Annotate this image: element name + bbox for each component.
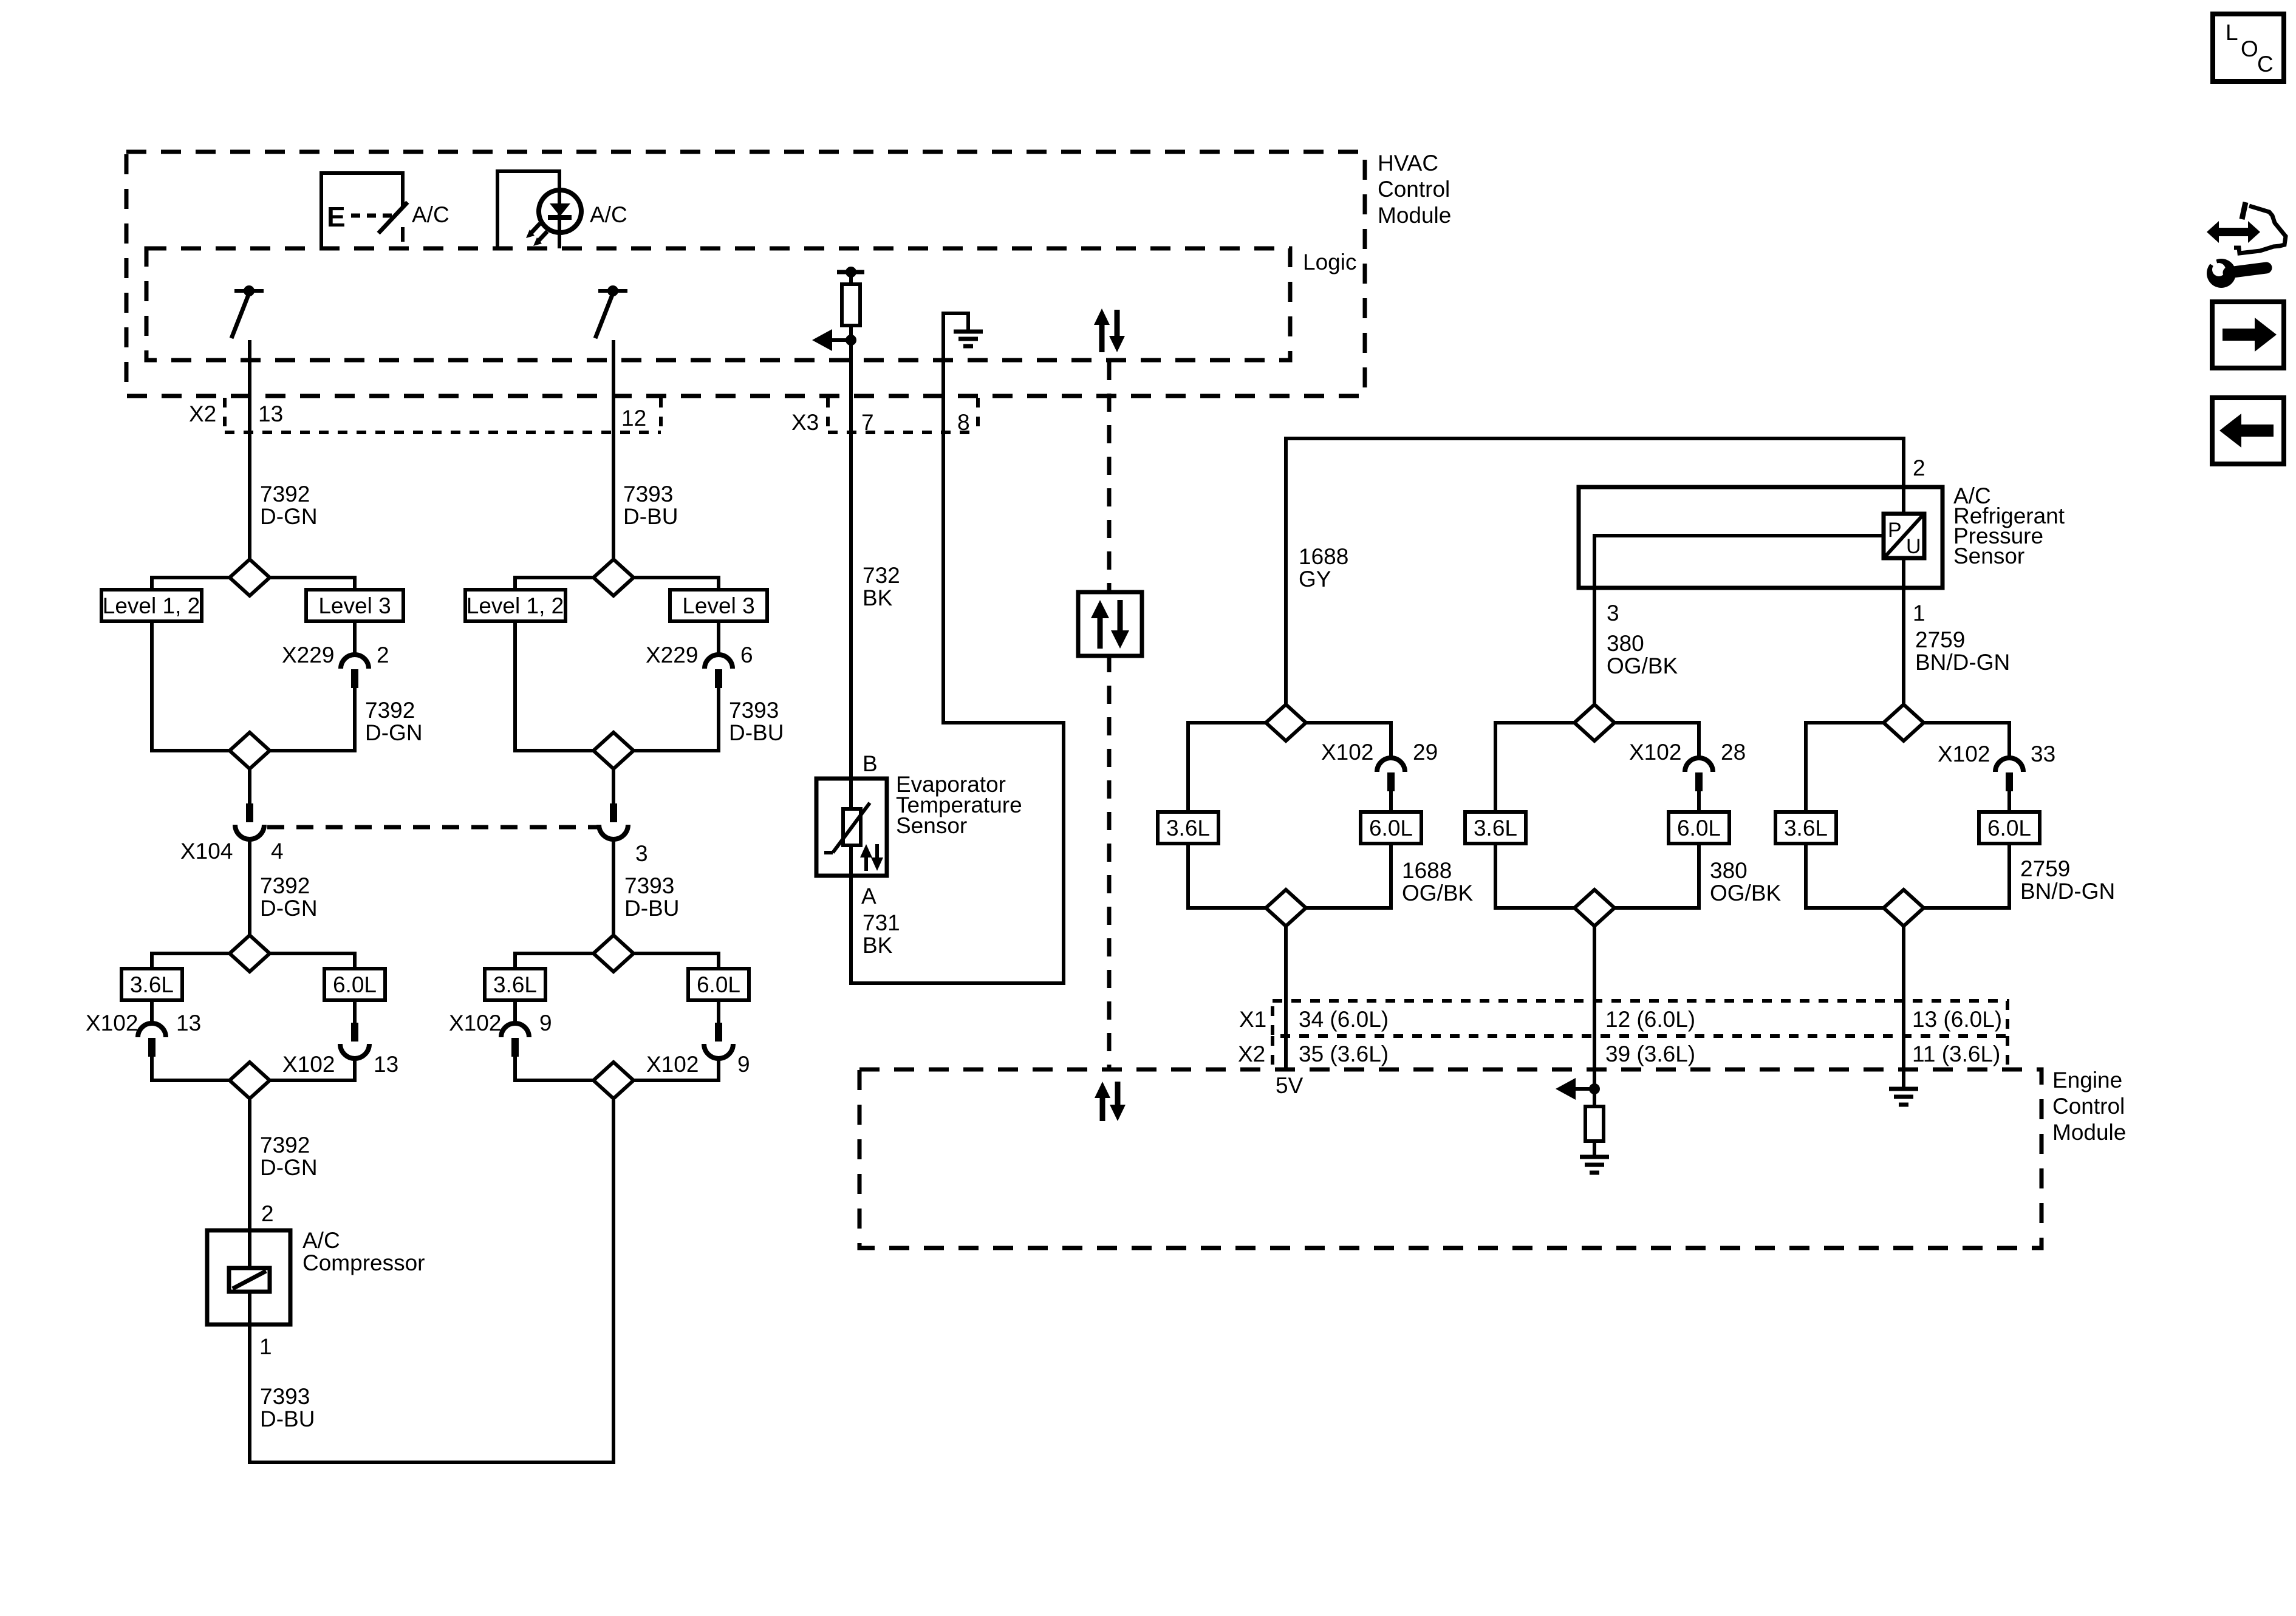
X3 connector row xyxy=(828,398,978,432)
svg-text:34 (6.0L): 34 (6.0L) xyxy=(1299,1007,1389,1032)
svg-text:Control: Control xyxy=(1378,177,1450,202)
svg-text:7392: 7392 xyxy=(260,873,310,898)
wire 3.6L to splice (5V branch) xyxy=(1188,844,1267,908)
3.6L box (signal branch) xyxy=(1465,812,1526,844)
svg-text:X102: X102 xyxy=(449,1011,501,1035)
svg-text:2: 2 xyxy=(377,643,389,667)
Level 3 box (right) xyxy=(670,590,767,621)
3.6L box (left branch) xyxy=(121,969,182,1000)
svg-text:BN/D-GN: BN/D-GN xyxy=(2020,879,2115,904)
resistor R2 (ECM pull-down) xyxy=(1585,1106,1604,1141)
svg-text:D-BU: D-BU xyxy=(260,1406,315,1431)
Logic box xyxy=(146,248,1290,360)
pin 1 wire xyxy=(1902,558,1905,704)
wire 732 BK from X3-7 xyxy=(849,432,853,779)
signal arrow to logic xyxy=(812,329,851,351)
svg-text:Level 3: Level 3 xyxy=(682,593,754,618)
A/C indicator LED xyxy=(526,171,581,248)
svg-text:HVAC: HVAC xyxy=(1378,151,1438,176)
A/C switch blade xyxy=(378,202,408,233)
Engine Control Module box xyxy=(859,1069,2041,1248)
wire Level 3 to X229 (left) xyxy=(353,621,357,655)
Level 3 box (left) xyxy=(306,590,403,621)
node on signal wire xyxy=(1589,1083,1600,1094)
wire node to X3 pin 7 xyxy=(849,345,853,432)
wire 6.0L to splice (ground branch) xyxy=(1922,844,2009,908)
splice diamond S104b xyxy=(593,1062,634,1099)
svg-text:2759: 2759 xyxy=(1915,627,1965,652)
wire 6.0L to splice (left branch) xyxy=(268,1059,355,1080)
wire X104 down xyxy=(248,839,251,935)
svg-text:Level 1, 2: Level 1, 2 xyxy=(466,593,564,618)
svg-text:9: 9 xyxy=(737,1052,750,1077)
wire X104 down (right) xyxy=(612,839,615,935)
A/C switch lower contact xyxy=(401,227,405,242)
connector X102 pin 9 (3.6L side) xyxy=(501,1000,529,1057)
Level 1, 2 box (right) xyxy=(465,590,565,621)
wire 3.6L to splice (right branch) xyxy=(515,1057,595,1080)
splice diamond S101a xyxy=(230,559,270,596)
svg-text:7393: 7393 xyxy=(623,482,673,506)
svg-text:X2: X2 xyxy=(189,401,216,426)
svg-text:13: 13 xyxy=(258,401,283,426)
vehicle data-link icon (car outline with double arrow) xyxy=(2207,202,2286,253)
splice diamond S103b xyxy=(593,732,634,769)
ECM connector row X2 xyxy=(1273,1036,2007,1068)
wire 3.6L to splice (ground branch) xyxy=(1806,844,1885,908)
svg-text:X229: X229 xyxy=(282,643,334,667)
splice diamond S103a xyxy=(593,559,634,596)
svg-text:X102: X102 xyxy=(1321,740,1373,765)
svg-text:7393: 7393 xyxy=(624,873,674,898)
svg-text:X229: X229 xyxy=(646,643,698,667)
svg-text:BN/D-GN: BN/D-GN xyxy=(1915,650,2010,675)
A/C indicator bracket xyxy=(497,171,559,248)
3.6L box (5V branch) xyxy=(1158,812,1218,844)
svg-text:6: 6 xyxy=(740,643,753,667)
wire to Level 3 (right) xyxy=(632,578,719,590)
connector X102 pin 13 (3.6L side) xyxy=(138,1000,166,1057)
svg-text:Engine: Engine xyxy=(2052,1068,2122,1093)
svg-text:OG/BK: OG/BK xyxy=(1402,881,1474,905)
svg-text:1: 1 xyxy=(1913,601,1925,626)
wire Level 1,2 down (left) xyxy=(152,621,231,751)
svg-text:28: 28 xyxy=(1721,740,1746,765)
svg-text:35 (3.6L): 35 (3.6L) xyxy=(1299,1042,1389,1066)
svg-text:B: B xyxy=(863,751,878,776)
connector X102 pin 9 (6.0L side) xyxy=(704,1000,733,1059)
serial data box xyxy=(1078,592,1142,656)
3.6L box (right branch) xyxy=(485,969,545,1000)
pressure transducer P/U symbol xyxy=(1884,514,1924,558)
svg-text:BK: BK xyxy=(863,933,893,958)
wire 380 OG/BK xyxy=(1593,588,1596,704)
serial data box arrows xyxy=(1091,600,1129,649)
splice diamond S102a xyxy=(230,935,270,972)
wire 7392 D-GN from X2-13 xyxy=(248,432,251,559)
svg-text:U: U xyxy=(1906,535,1921,558)
svg-text:11 (3.6L): 11 (3.6L) xyxy=(1912,1042,2000,1066)
svg-text:6.0L: 6.0L xyxy=(1369,816,1413,840)
svg-text:Level 3: Level 3 xyxy=(318,593,391,618)
A/C switch subcircuit bracket xyxy=(321,173,403,248)
svg-text:X2: X2 xyxy=(1238,1042,1265,1066)
thermistor symbol xyxy=(824,779,870,876)
svg-text:P: P xyxy=(1888,519,1902,542)
svg-text:Logic: Logic xyxy=(1303,250,1356,274)
ground symbol (logic) xyxy=(954,332,983,346)
wire to X102-29 xyxy=(1305,723,1391,758)
wire X102-29 to 6.0L xyxy=(1389,791,1393,812)
sensor internal arrows xyxy=(860,844,883,871)
X2 connector row xyxy=(225,398,661,432)
svg-text:L: L xyxy=(2226,20,2238,45)
svg-text:A: A xyxy=(861,884,876,909)
wire to 3.6L (left branch) xyxy=(152,953,231,969)
svg-text:4: 4 xyxy=(271,839,284,864)
wire to 3.6L (ground branch) xyxy=(1806,723,1885,812)
splice diamond S101b xyxy=(230,732,270,769)
wrench icon xyxy=(2201,245,2266,288)
svg-text:O: O xyxy=(2241,36,2258,61)
svg-text:Module: Module xyxy=(1378,203,1451,228)
svg-text:6.0L: 6.0L xyxy=(697,972,740,997)
svg-text:7393: 7393 xyxy=(260,1384,310,1409)
svg-text:2: 2 xyxy=(1913,455,1925,480)
wire to Level 3 (left) xyxy=(268,578,355,590)
svg-text:D-GN: D-GN xyxy=(260,1155,318,1180)
A/C refrigerant pressure sensor box xyxy=(1579,487,1942,588)
svg-text:A/C: A/C xyxy=(590,202,627,227)
ECM ground stub xyxy=(1902,1069,1905,1089)
connector tie line X104 xyxy=(267,825,598,830)
svg-text:380: 380 xyxy=(1607,631,1644,656)
svg-text:13: 13 xyxy=(374,1052,398,1077)
wire S1 to X2 pin 13 xyxy=(248,340,251,559)
svg-text:D-BU: D-BU xyxy=(624,896,679,921)
6.0L box (left branch) xyxy=(324,969,385,1000)
svg-text:33: 33 xyxy=(2031,742,2055,766)
svg-text:732: 732 xyxy=(863,563,900,588)
LOC reference box xyxy=(2213,14,2284,81)
svg-text:X102: X102 xyxy=(282,1052,335,1077)
wire Level 3 to X229 (right) xyxy=(717,621,720,655)
connector X104 pin 4 xyxy=(235,803,264,839)
connector X102 pin 33 xyxy=(1995,758,2023,791)
svg-text:3: 3 xyxy=(1607,601,1619,626)
svg-text:7392: 7392 xyxy=(260,482,310,506)
splice diamond S105b xyxy=(1266,890,1306,926)
serial data link (dashed wire) xyxy=(1107,362,1112,593)
wire to 6.0L (left branch) xyxy=(268,953,355,969)
evaporator temperature sensor box xyxy=(816,779,887,876)
svg-text:1688: 1688 xyxy=(1299,544,1348,569)
splice diamond S107b xyxy=(1884,890,1924,926)
svg-text:13 (6.0L): 13 (6.0L) xyxy=(1912,1007,2002,1032)
wire 6.0L to splice (signal branch) xyxy=(1613,844,1699,908)
svg-text:X102: X102 xyxy=(1938,742,1990,766)
svg-text:731: 731 xyxy=(863,910,900,935)
svg-text:X102: X102 xyxy=(646,1052,699,1077)
wire 3.6L to splice (signal branch) xyxy=(1495,844,1576,908)
compressor clutch coil symbol xyxy=(229,1230,270,1325)
wire X102-33 to 6.0L xyxy=(2007,791,2011,812)
svg-text:BK: BK xyxy=(863,585,893,610)
signal arrow to ECM logic xyxy=(1556,1078,1594,1100)
ground symbol (ECM low ref) xyxy=(1889,1089,1918,1105)
svg-text:Control: Control xyxy=(2052,1094,2125,1119)
wire 7393 D-BU return xyxy=(250,1099,613,1462)
wire X229 down (right) xyxy=(632,688,719,751)
splice diamond S104a xyxy=(593,935,634,972)
ECM connector row X1 xyxy=(1273,1001,2007,1036)
A/C compressor box xyxy=(207,1230,290,1325)
svg-text:7393: 7393 xyxy=(729,698,779,723)
6.0L box (right branch) xyxy=(688,969,749,1000)
5V supply top wire xyxy=(1286,438,1904,704)
svg-text:E: E xyxy=(327,201,346,233)
svg-text:A/C: A/C xyxy=(302,1228,340,1253)
wire to X104 pin 3 xyxy=(612,769,615,803)
svg-text:12 (6.0L): 12 (6.0L) xyxy=(1605,1007,1695,1032)
svg-text:D-BU: D-BU xyxy=(623,504,678,529)
6.0L box (signal branch) xyxy=(1669,812,1729,844)
svg-text:C: C xyxy=(2257,52,2274,77)
wire 6.0L to splice (5V branch) xyxy=(1305,844,1391,908)
forward arrow box xyxy=(2212,302,2284,368)
svg-text:29: 29 xyxy=(1413,740,1438,765)
svg-text:3.6L: 3.6L xyxy=(1166,816,1210,840)
svg-text:X1: X1 xyxy=(1239,1007,1266,1032)
wire to X102-33 xyxy=(1922,723,2009,758)
svg-text:6.0L: 6.0L xyxy=(1987,816,2031,840)
wire resistor to node xyxy=(849,326,853,340)
switch S2 (A/C indicator driver) xyxy=(595,285,627,338)
svg-text:GY: GY xyxy=(1299,567,1331,592)
serial data arrows (logic) xyxy=(1094,309,1125,352)
wire X229 down (left) xyxy=(268,688,355,751)
svg-text:X104: X104 xyxy=(180,839,233,864)
svg-text:1688: 1688 xyxy=(1402,858,1452,883)
svg-text:39 (3.6L): 39 (3.6L) xyxy=(1605,1042,1695,1066)
Level 1, 2 box (left) xyxy=(101,590,202,621)
svg-text:12: 12 xyxy=(621,406,646,431)
svg-text:A/C: A/C xyxy=(412,202,449,227)
serial data arrows (ECM) xyxy=(1095,1082,1126,1121)
6.0L box (5V branch) xyxy=(1361,812,1421,844)
svg-text:3.6L: 3.6L xyxy=(130,972,174,997)
svg-text:Level 1, 2: Level 1, 2 xyxy=(103,593,200,618)
connector X229 pin 2 xyxy=(341,655,369,688)
svg-text:6.0L: 6.0L xyxy=(1677,816,1721,840)
svg-text:3.6L: 3.6L xyxy=(1474,816,1517,840)
connector X102 pin 13 (6.0L side) xyxy=(340,1000,369,1059)
3.6L box (ground branch) xyxy=(1775,812,1836,844)
svg-text:Sensor: Sensor xyxy=(896,813,967,838)
svg-text:8: 8 xyxy=(957,410,970,435)
serial data link continues (dashed wire) xyxy=(1107,654,1112,1069)
svg-text:13: 13 xyxy=(176,1011,201,1035)
back arrow box xyxy=(2212,398,2284,464)
resistor R1 (logic sense) xyxy=(842,284,860,326)
wire splice to ECM X1-12 xyxy=(1593,927,1596,1069)
node below resistor xyxy=(846,335,856,346)
ground return wire to X3-8 xyxy=(851,432,1064,983)
ECM sense node wire xyxy=(1593,1069,1596,1106)
wire to A/C compressor pin 2 xyxy=(248,1099,251,1230)
svg-text:6.0L: 6.0L xyxy=(333,972,377,997)
logic ground branch wire xyxy=(943,313,968,432)
connector X229 pin 6 xyxy=(705,655,733,688)
splice diamond S107a xyxy=(1884,704,1924,741)
svg-text:5V: 5V xyxy=(1276,1073,1303,1098)
svg-text:X102: X102 xyxy=(1629,740,1681,765)
splice diamond S106b xyxy=(1574,890,1614,926)
wire 3.6L to splice (left branch) xyxy=(152,1057,231,1080)
splice diamond S102b xyxy=(230,1062,270,1099)
ground symbol (ECM signal) xyxy=(1580,1157,1609,1173)
svg-text:Sensor: Sensor xyxy=(1953,544,2024,568)
svg-text:3.6L: 3.6L xyxy=(1784,816,1828,840)
wire to 3.6L (right branch) xyxy=(515,953,595,969)
wire Level 1,2 down (right) xyxy=(515,621,595,751)
wire to Level 1,2 (left) xyxy=(152,578,231,590)
wire X102-28 to 6.0L xyxy=(1697,791,1701,812)
svg-text:2759: 2759 xyxy=(2020,856,2070,881)
wire to Level 1,2 (right) xyxy=(515,578,595,590)
svg-text:2: 2 xyxy=(261,1201,274,1226)
wire to 3.6L (signal branch) xyxy=(1495,723,1576,812)
wire resistor to ground xyxy=(1593,1141,1596,1157)
wire 6.0L to splice (right branch) xyxy=(632,1059,719,1080)
logic pull-up rail bar xyxy=(837,270,864,274)
svg-text:D-GN: D-GN xyxy=(260,896,318,921)
wire splice to ECM X1-34 xyxy=(1284,927,1288,1069)
wire to 6.0L (right branch) xyxy=(632,953,719,969)
connector X102 pin 28 xyxy=(1685,758,1713,791)
connector X102 pin 29 xyxy=(1377,758,1405,791)
A/C switch mechanical link (dashed) xyxy=(351,214,392,218)
wire S2 to X2 pin 12 xyxy=(612,340,615,559)
svg-text:OG/BK: OG/BK xyxy=(1607,653,1678,678)
splice diamond S105a xyxy=(1266,704,1306,741)
svg-text:7392: 7392 xyxy=(365,698,415,723)
sensor internal signal wire xyxy=(1594,536,1884,588)
wire to 3.6L (5V branch) xyxy=(1188,723,1267,812)
svg-text:3.6L: 3.6L xyxy=(493,972,537,997)
svg-text:7: 7 xyxy=(861,410,874,435)
svg-text:D-GN: D-GN xyxy=(365,720,423,745)
wire to X104 xyxy=(248,769,251,803)
svg-text:9: 9 xyxy=(539,1011,552,1035)
6.0L box (ground branch) xyxy=(1979,812,2040,844)
svg-text:D-GN: D-GN xyxy=(260,504,318,529)
svg-text:D-BU: D-BU xyxy=(729,720,784,745)
svg-text:380: 380 xyxy=(1710,858,1748,883)
svg-text:3: 3 xyxy=(635,841,648,866)
svg-text:X3: X3 xyxy=(791,410,819,435)
HVAC Control Module box xyxy=(126,152,1365,396)
svg-text:1: 1 xyxy=(259,1334,272,1359)
wire to X102-28 xyxy=(1613,723,1699,758)
wire rail to resistor xyxy=(849,272,853,284)
svg-text:Compressor: Compressor xyxy=(302,1250,425,1275)
svg-text:X102: X102 xyxy=(86,1011,138,1035)
svg-text:OG/BK: OG/BK xyxy=(1710,881,1782,905)
switch S1 (A/C request) xyxy=(231,285,264,338)
svg-text:Module: Module xyxy=(2052,1120,2126,1145)
connector X104 pin 3 xyxy=(599,803,628,839)
wire splice to ECM X1-13 xyxy=(1902,927,1905,1069)
wire 7393 D-BU from X2-12 xyxy=(612,432,615,559)
svg-text:7392: 7392 xyxy=(260,1133,310,1157)
node on rail xyxy=(846,267,856,278)
splice diamond S106a xyxy=(1574,704,1614,741)
